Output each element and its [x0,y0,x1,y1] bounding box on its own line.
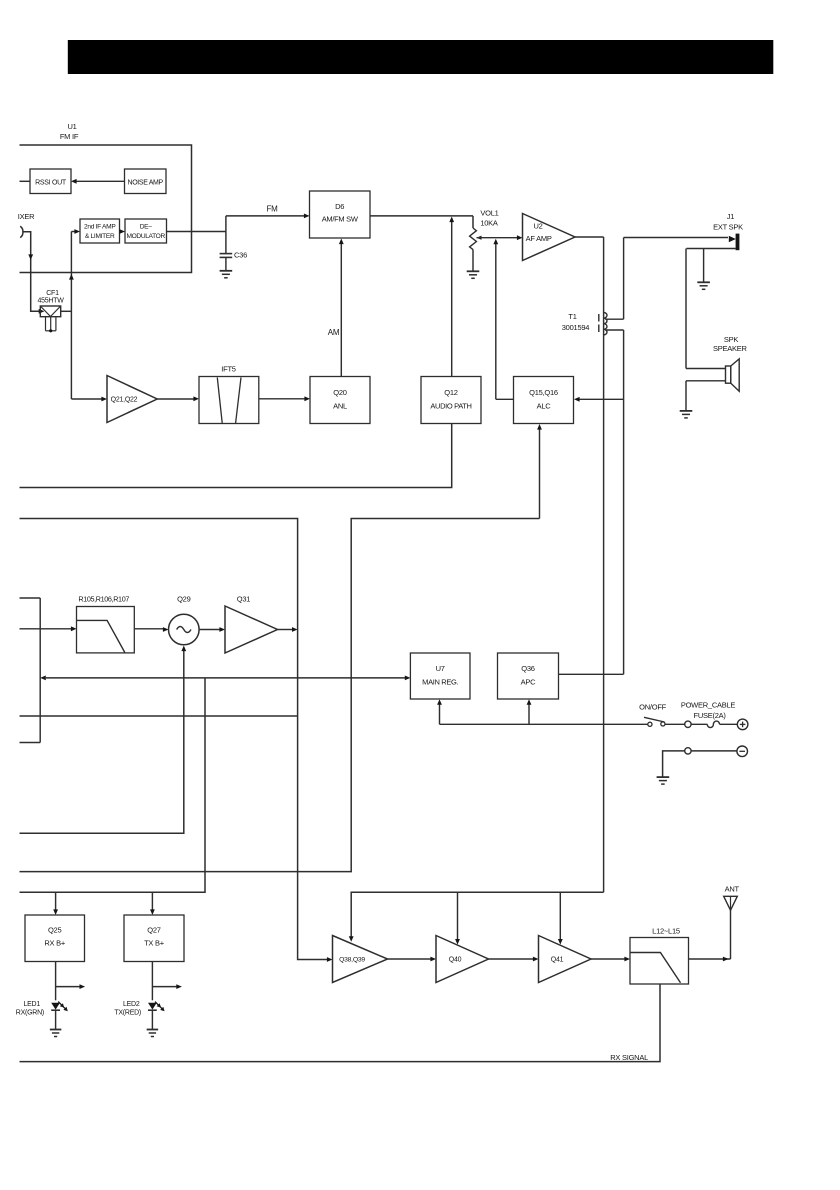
svg-text:ALC: ALC [537,402,552,411]
svg-text:455HTW: 455HTW [37,298,64,305]
svg-text:FM IF: FM IF [60,132,79,141]
svg-text:Q29: Q29 [177,595,191,604]
svg-text:Q38,Q39: Q38,Q39 [339,957,365,964]
svg-text:RX(GRN): RX(GRN) [16,1010,44,1017]
svg-text:LED2: LED2 [123,1001,140,1008]
svg-text:Q20: Q20 [333,388,347,397]
svg-text:U7: U7 [436,664,445,673]
svg-text:& LIMITER: & LIMITER [85,233,115,240]
svg-text:CF1: CF1 [46,290,59,297]
svg-text:ANT: ANT [725,885,740,894]
svg-text:Q36: Q36 [521,664,535,673]
svg-text:IXER: IXER [18,212,35,221]
svg-text:FUSE(2A): FUSE(2A) [694,711,727,720]
svg-text:Q21,Q22: Q21,Q22 [111,397,138,404]
svg-text:SPEAKER: SPEAKER [713,344,748,353]
svg-text:Q40: Q40 [449,957,462,964]
svg-text:2nd IF AMP: 2nd IF AMP [84,224,116,231]
svg-text:LED1: LED1 [23,1001,40,1008]
svg-text:J1: J1 [727,212,735,221]
svg-text:POWER_CABLE: POWER_CABLE [681,701,736,710]
svg-text:EXT SPK: EXT SPK [713,223,743,232]
svg-text:ANL: ANL [333,402,347,411]
svg-text:Q41: Q41 [551,957,564,964]
svg-text:DE–: DE– [140,224,153,231]
svg-text:ON/OFF: ON/OFF [639,703,666,712]
svg-text:RX B+: RX B+ [44,939,66,948]
svg-text:10KA: 10KA [480,219,498,228]
svg-text:RSSI OUT: RSSI OUT [35,180,67,187]
svg-text:C36: C36 [234,251,247,260]
svg-text:3001594: 3001594 [562,323,590,332]
svg-text:D6: D6 [335,202,344,211]
svg-text:SPK: SPK [724,335,739,344]
svg-text:Q15,Q16: Q15,Q16 [529,388,558,397]
svg-text:IFT5: IFT5 [221,365,235,374]
svg-text:FM: FM [266,205,278,214]
svg-text:Q27: Q27 [147,926,161,935]
svg-text:MODULATOR: MODULATOR [127,233,166,240]
svg-text:T1: T1 [568,312,576,321]
svg-text:NOISE AMP: NOISE AMP [128,180,164,187]
svg-text:Q12: Q12 [444,388,458,397]
svg-text:AM: AM [328,328,340,337]
svg-text:R105,R106,R107: R105,R106,R107 [78,595,129,604]
svg-text:APC: APC [521,678,537,687]
svg-text:U1: U1 [67,122,76,131]
svg-text:Q25: Q25 [48,926,62,935]
svg-text:VOL1: VOL1 [480,209,498,218]
svg-text:Q31: Q31 [237,595,251,604]
svg-text:AM/FM SW: AM/FM SW [322,215,359,224]
svg-text:RX SIGNAL: RX SIGNAL [610,1053,648,1062]
svg-text:L12~L15: L12~L15 [652,927,680,936]
svg-text:AUDIO PATH: AUDIO PATH [430,402,471,411]
svg-text:AF AMP: AF AMP [526,234,552,243]
svg-text:TX B+: TX B+ [144,939,165,948]
svg-text:U2: U2 [533,222,542,231]
svg-text:MAIN REG.: MAIN REG. [422,678,458,687]
svg-text:TX(RED): TX(RED) [114,1010,141,1017]
